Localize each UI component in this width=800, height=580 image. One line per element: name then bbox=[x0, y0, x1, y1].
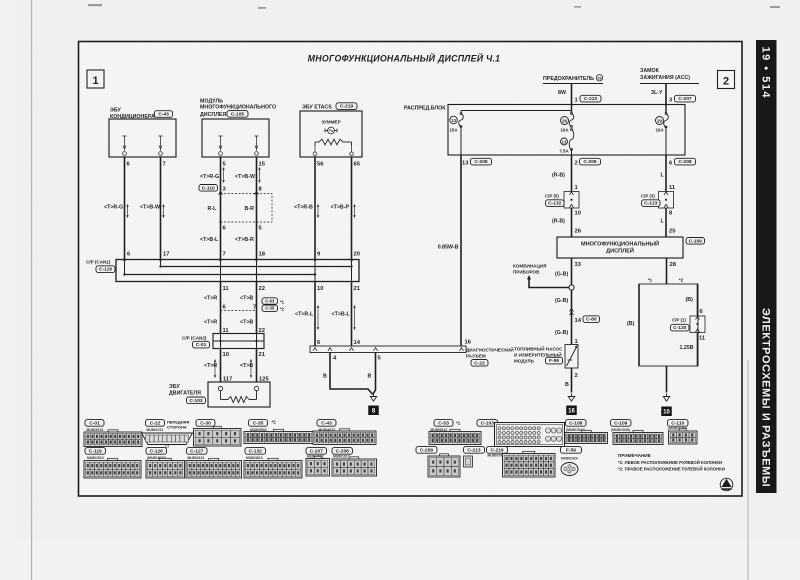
wire strip pin4 to ground bbox=[330, 353, 373, 395]
junction circle bbox=[569, 285, 574, 290]
arrow on wire 17 bbox=[162, 204, 165, 218]
right variant wire bbox=[697, 284, 699, 316]
fuse 13b exit bbox=[571, 150, 573, 156]
wire ETACS 56 down bbox=[314, 157, 316, 260]
wire module pin15 down bbox=[256, 157, 258, 260]
wire bus to C-63 left bbox=[220, 282, 222, 334]
многофункциональный дисплей box bbox=[557, 237, 683, 258]
diagnostic strip bbox=[310, 346, 466, 353]
wire below joint r bbox=[665, 208, 667, 237]
connector C-43 bbox=[317, 420, 336, 427]
fuse 13b circle bbox=[561, 138, 568, 145]
fuse 26 element bbox=[569, 114, 574, 127]
fuse 26 circle bbox=[561, 117, 569, 125]
wire A/C pin6 to CAN1 bbox=[124, 157, 126, 260]
connector C-119 bbox=[85, 448, 106, 455]
pin symbol module 15 bbox=[254, 136, 258, 155]
ЭБУ ETACS box bbox=[300, 111, 362, 157]
ЭБУ кондиционера U-A/C box bbox=[109, 119, 176, 157]
wire below joint bbox=[571, 208, 573, 237]
index box 2 bbox=[718, 71, 735, 89]
svg-text:19 • 514: 19 • 514 bbox=[760, 47, 772, 100]
wire C-208/6 down bbox=[665, 155, 667, 192]
wire MFD 28 down bbox=[666, 258, 668, 284]
connector C-127 bbox=[187, 448, 208, 455]
wire strip pin5 to ground bbox=[373, 353, 375, 394]
wire variant to ground bbox=[666, 366, 668, 393]
CAN1 bus box bbox=[116, 260, 359, 282]
page edge line bbox=[747, 360, 749, 580]
connector F-59 bbox=[561, 447, 582, 454]
fuse 13 element bbox=[459, 114, 464, 127]
connector C-108 bbox=[566, 420, 587, 427]
CAN2 bus box bbox=[213, 334, 264, 349]
C/P(5) joint box bbox=[564, 192, 579, 209]
pin symbol A/C 6 bbox=[122, 136, 126, 155]
C/P(3) joint box bbox=[659, 192, 674, 209]
ground tag 16 bbox=[566, 406, 577, 416]
fuse 29 circle bbox=[656, 117, 664, 125]
fuse 13 circle bbox=[450, 116, 458, 124]
scan specks bbox=[88, 4, 780, 9]
wire bus to strip right bbox=[351, 282, 353, 347]
wire module pin5 down bbox=[220, 157, 222, 260]
branch wire to instrument cluster bbox=[529, 277, 569, 288]
fuse 29 element bbox=[664, 114, 669, 128]
wire CAN2 to ECU right bbox=[256, 349, 258, 383]
pin symbol A/C 7 bbox=[158, 136, 162, 155]
ground variant bbox=[663, 394, 669, 402]
модуль дисплея box bbox=[202, 119, 269, 157]
CAN1 rail L bbox=[125, 274, 316, 276]
pin symbol ETACS 65 bbox=[350, 146, 354, 156]
connector C-53 bbox=[434, 420, 453, 427]
scan noise overlay bbox=[0, 0, 1, 1]
fuse feed line inside block bbox=[461, 110, 572, 112]
connector C-213 bbox=[464, 447, 485, 454]
connector C-110 tag bbox=[199, 185, 218, 192]
connector C-209 bbox=[416, 447, 437, 454]
buzzer symbol bbox=[328, 127, 335, 134]
connector C-109 bbox=[611, 420, 632, 427]
connector C-219 bbox=[487, 447, 508, 454]
ground tag 10 bbox=[661, 407, 672, 417]
C/P(1) joint box bbox=[690, 316, 705, 333]
wire bus to C-63 right bbox=[256, 282, 258, 334]
connector C-208 bbox=[332, 448, 353, 455]
wire CAN2 to ECU left bbox=[220, 349, 222, 383]
fuse 29 exit bbox=[665, 127, 667, 155]
arrow on wire 6 bbox=[126, 204, 129, 218]
wire 0.85W-B down to diagnostic strip bbox=[460, 155, 462, 346]
fuel pump box bbox=[565, 345, 578, 369]
CAN1 rail H bbox=[161, 266, 352, 268]
pin symbol module 5 bbox=[218, 136, 222, 155]
C-63/C-35 dashed link bbox=[221, 310, 257, 312]
dashed harness box bbox=[221, 194, 273, 223]
connector C-01 bbox=[85, 420, 104, 427]
CAN1 taps bbox=[124, 260, 126, 275]
joint C-80 chevrons bbox=[570, 308, 574, 311]
connector C-207 bbox=[306, 448, 327, 455]
junction chevrons C-110 bbox=[219, 191, 223, 194]
junction dots bbox=[219, 192, 221, 194]
connector C-35 bbox=[249, 420, 268, 427]
fuse 29 entry wire bbox=[665, 105, 667, 114]
index box 1 bbox=[87, 70, 104, 88]
left page margin line bbox=[31, 0, 33, 580]
pin symbol ETACS 56 bbox=[313, 146, 317, 156]
resistor in ETACS bbox=[314, 142, 316, 146]
ground strip bbox=[370, 394, 376, 402]
connector C-132 bbox=[245, 448, 266, 455]
wire ignition to block bbox=[665, 84, 667, 107]
connector C-110 bbox=[668, 420, 689, 427]
wire fuse to block bbox=[571, 84, 573, 107]
connector C-103 bbox=[477, 420, 498, 427]
fuse 26 entry wire bbox=[571, 105, 573, 114]
wire MFD 33 down bbox=[571, 258, 573, 344]
wire A/C pin7 to CAN1 bbox=[160, 157, 162, 260]
feed underline fuse bbox=[543, 83, 603, 85]
left variant wire (B) bbox=[638, 284, 640, 366]
page border frame bbox=[79, 42, 743, 497]
publisher logo bbox=[720, 478, 733, 491]
ground tag 8 bbox=[368, 406, 379, 416]
fuse 13b element bbox=[569, 130, 574, 150]
distribution block box bbox=[448, 105, 685, 156]
ECU pin circles + resistor bbox=[218, 386, 222, 390]
wire fuel to ground bbox=[571, 368, 573, 393]
wire bus to strip left bbox=[314, 282, 316, 347]
fuse 13 exit wire bbox=[460, 127, 462, 156]
feed underline ignition bbox=[640, 83, 699, 85]
svg-text:ЭЛЕКТРОСХЕМЫ И РАЗЪЕМЫ: ЭЛЕКТРОСХЕМЫ И РАЗЪЕМЫ bbox=[760, 308, 772, 487]
ground fuel bbox=[568, 394, 574, 402]
connector C-22 bbox=[146, 420, 165, 427]
connector C-30 bbox=[196, 420, 215, 427]
wire ETACS 65 down bbox=[351, 157, 353, 260]
connector C-126 bbox=[146, 448, 167, 455]
ЭБУ двигателя box bbox=[208, 382, 270, 407]
sidebar black bar bbox=[756, 40, 777, 493]
wire C-209/2 down bbox=[571, 155, 573, 192]
variant routing box bbox=[639, 284, 698, 366]
